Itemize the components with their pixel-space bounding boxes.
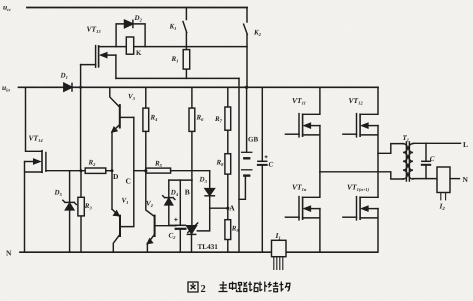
wire C line bbox=[134, 170, 146, 172]
transistor VT1n bbox=[298, 197, 300, 220]
capacitor C bbox=[261, 87, 263, 161]
battery GB bbox=[246, 87, 248, 151]
zener D4 bbox=[168, 180, 170, 197]
hanzi tuo bbox=[248, 282, 258, 292]
wire bridge right leg tap bbox=[378, 144, 403, 154]
resistor R3 bbox=[80, 171, 82, 253]
resistor R6 column bbox=[191, 87, 193, 225]
wire VT13 source line bbox=[116, 77, 239, 79]
wire V3 base / V1 base column bbox=[120, 117, 134, 226]
polarity plus C2 bbox=[174, 155, 267, 221]
transistor VT14 bbox=[26, 87, 43, 151]
transformer T1 secondary bbox=[409, 144, 413, 179]
wire secondary bottom bbox=[413, 178, 437, 180]
transistor VT11 bbox=[298, 114, 300, 137]
transistor V3 bbox=[110, 87, 120, 107]
transistor VT12 bbox=[356, 114, 358, 137]
resistor R4 bbox=[146, 87, 155, 216]
capacitor C output bbox=[425, 143, 427, 161]
relay coil K bbox=[126, 37, 133, 54]
wire column to N bbox=[238, 78, 240, 252]
transistor V1 bbox=[119, 216, 121, 236]
junction dots bbox=[79, 86, 248, 210]
hanzi jie bbox=[269, 282, 279, 292]
zener D5 bbox=[69, 171, 71, 202]
hanzi lu bbox=[238, 282, 247, 292]
switch K2 bbox=[244, 8, 248, 88]
hanzi pu bbox=[258, 282, 267, 292]
transistor VT1n+1 bbox=[356, 197, 358, 220]
current sensor I2 bbox=[437, 167, 450, 193]
resistor R5 bbox=[146, 168, 171, 173]
wire bridge left leg line bbox=[320, 172, 403, 179]
hanzi tu bbox=[188, 282, 198, 292]
transistor VT13 bbox=[95, 46, 97, 68]
hanzi gou bbox=[279, 282, 290, 292]
resistor R1 bbox=[185, 47, 187, 79]
current sensor I1 bbox=[272, 240, 287, 256]
resistor R7 R8 R9 column bbox=[227, 87, 229, 252]
switch K1 bbox=[183, 8, 187, 47]
capacitor C2 bbox=[179, 180, 181, 225]
TL431 U1 bbox=[187, 226, 197, 234]
caption figure 2 bbox=[188, 282, 198, 292]
wire VT13 drain line bbox=[99, 46, 247, 48]
node N bottom rail bbox=[20, 251, 378, 253]
transistor V2 bbox=[154, 216, 156, 236]
transformer T1 primary bbox=[403, 144, 407, 179]
node uin main rail bbox=[19, 86, 379, 88]
hanzi zhu bbox=[219, 282, 228, 292]
wire B line bbox=[169, 179, 192, 181]
wire gate column bbox=[80, 65, 82, 171]
diode D1 bbox=[64, 83, 72, 91]
transformer T1 core bbox=[406, 142, 409, 181]
diode D2 bbox=[116, 24, 145, 47]
wire A line bbox=[210, 207, 228, 209]
diode D3 bbox=[209, 171, 211, 189]
wire L line bbox=[413, 142, 461, 144]
hanzi dian bbox=[230, 282, 239, 292]
node ucc top rail bbox=[27, 7, 247, 9]
node D column bbox=[111, 132, 113, 209]
resistor R2 bbox=[85, 168, 106, 173]
